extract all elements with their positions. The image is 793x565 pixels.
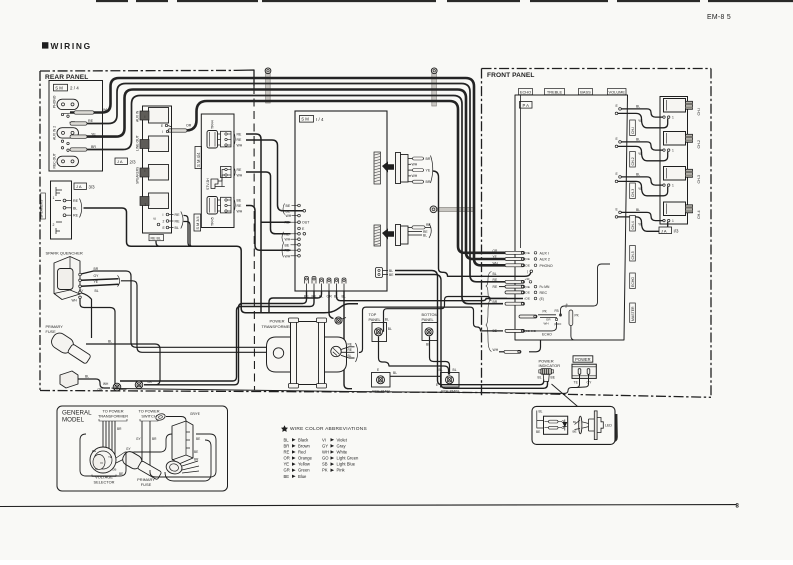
wire TR45 to SM1/4 bbox=[246, 206, 291, 251]
svg-text:WH: WH bbox=[493, 261, 499, 265]
svg-text:WH: WH bbox=[544, 322, 549, 326]
wire transformer to echo lug bbox=[359, 307, 503, 352]
svg-text:TE: TE bbox=[574, 380, 579, 384]
jack REC OUT bbox=[57, 156, 79, 166]
diode bbox=[563, 420, 567, 431]
svg-text:BL: BL bbox=[175, 226, 179, 230]
svg-text:TOP: TOP bbox=[369, 313, 377, 317]
wire RE down-left bbox=[120, 291, 314, 381]
svg-text:BE: BE bbox=[196, 437, 200, 441]
svg-text:PK: PK bbox=[322, 468, 328, 473]
SM1/4 bottom terminals bbox=[305, 277, 309, 284]
svg-text:GO: GO bbox=[322, 456, 329, 461]
svg-text:LINE OUT: LINE OUT bbox=[136, 135, 140, 151]
svg-text:I/3: I/3 bbox=[674, 229, 679, 234]
svg-text:SELECTOR: SELECTOR bbox=[94, 479, 115, 484]
svg-text:PANEL: PANEL bbox=[422, 318, 434, 322]
jack column outline bbox=[143, 106, 172, 233]
svg-text:VI: VI bbox=[100, 461, 103, 465]
wire YE from quencher bbox=[81, 284, 118, 286]
svg-text:SWITCH: SWITCH bbox=[141, 414, 157, 419]
E row bbox=[298, 227, 301, 230]
pointer line to led detail bbox=[552, 384, 578, 406]
svg-text:CH-2: CH-2 bbox=[697, 140, 701, 149]
jack CH-2 bbox=[664, 132, 686, 146]
terminals CH-4 bbox=[663, 219, 665, 221]
svg-text:BR: BR bbox=[94, 267, 99, 271]
wire color abbreviations bbox=[281, 425, 288, 432]
svg-text:(OE: (OE bbox=[525, 285, 530, 289]
side panel right bbox=[441, 373, 460, 388]
svg-text:INDICATOR: INDICATOR bbox=[539, 363, 561, 368]
wire CH-2 E BL bbox=[619, 141, 622, 144]
svg-text:Pink: Pink bbox=[337, 468, 346, 473]
transistor TR45 bbox=[207, 197, 218, 215]
TR45 header bbox=[221, 197, 232, 213]
wire BL2 down-right bbox=[337, 291, 524, 301]
svg-text:BL: BL bbox=[348, 354, 352, 358]
svg-text:BR: BR bbox=[91, 145, 96, 149]
svg-text:RE: RE bbox=[493, 278, 498, 282]
svg-text:E: E bbox=[153, 217, 157, 219]
svg-text:S M 3/4: S M 3/4 bbox=[196, 216, 200, 229]
wire YE aux2 to bundle bbox=[70, 90, 505, 260]
svg-text:YE: YE bbox=[91, 132, 96, 136]
svg-text:BR: BR bbox=[426, 157, 431, 161]
svg-text:CH-4: CH-4 bbox=[631, 221, 635, 229]
svg-text:RE BL: RE BL bbox=[151, 237, 161, 241]
svg-text:FRONT PANEL: FRONT PANEL bbox=[487, 72, 535, 79]
switch wire GY bbox=[577, 375, 589, 388]
transformer terminals bbox=[273, 348, 283, 358]
svg-text:+30: +30 bbox=[525, 277, 530, 281]
bottom page rule bbox=[0, 505, 736, 507]
svg-text:YE: YE bbox=[638, 119, 643, 123]
svg-text:RE: RE bbox=[348, 348, 352, 352]
svg-text:BE: BE bbox=[285, 243, 290, 247]
svg-text:PHONO: PHONO bbox=[540, 264, 553, 268]
svg-text:GY: GY bbox=[587, 380, 593, 384]
svg-text:GR/YE: GR/YE bbox=[190, 412, 200, 416]
svg-text:Light Blue: Light Blue bbox=[337, 462, 356, 467]
earth contact bbox=[157, 223, 160, 226]
svg-text:BR: BR bbox=[152, 437, 157, 441]
svg-text:CH-2: CH-2 bbox=[631, 157, 635, 165]
svg-text:WH: WH bbox=[237, 144, 243, 148]
quencher terminals bbox=[79, 273, 82, 276]
svg-text:Gray: Gray bbox=[337, 443, 347, 448]
svg-text:CH-I: CH-I bbox=[697, 108, 701, 116]
SM1/4 right connector 2 hatched strip bbox=[374, 225, 381, 246]
svg-text:BL: BL bbox=[385, 318, 389, 322]
brace rows group1 bbox=[486, 272, 492, 302]
svg-text:POWER: POWER bbox=[575, 357, 591, 362]
wire TR44 row1 to SM1/4 bbox=[246, 134, 261, 312]
jack PHONO bbox=[57, 99, 79, 109]
svg-text:S M: S M bbox=[301, 117, 309, 122]
svg-text:ECHO: ECHO bbox=[520, 90, 531, 95]
wire connector2 down bbox=[433, 171, 500, 276]
svg-text:RE: RE bbox=[175, 220, 181, 224]
svg-text:CH-4: CH-4 bbox=[697, 210, 701, 219]
wire OR auxin to bundle bbox=[186, 101, 505, 253]
ac plug cap bbox=[165, 459, 184, 475]
svg-text:WH: WH bbox=[412, 163, 418, 167]
svg-text:OR: OR bbox=[98, 388, 104, 392]
svg-text:FUSE: FUSE bbox=[46, 330, 57, 334]
switch wire TE long run bbox=[112, 375, 580, 394]
jack CH-3 bbox=[664, 167, 686, 181]
svg-text:S M: S M bbox=[55, 86, 63, 91]
wire CH-3 E BL bbox=[619, 176, 622, 179]
svg-text:2/3: 2/3 bbox=[130, 159, 137, 164]
svg-text:CH-I: CH-I bbox=[631, 127, 635, 134]
svg-text:RE: RE bbox=[493, 285, 498, 289]
svg-text:WH: WH bbox=[237, 174, 243, 178]
svg-text:2 / 4: 2 / 4 bbox=[70, 86, 79, 91]
led body bbox=[594, 411, 597, 440]
svg-text:2: 2 bbox=[145, 203, 147, 207]
mid header RE WH bbox=[221, 167, 232, 178]
svg-text:RE: RE bbox=[237, 138, 243, 142]
svg-text:RE: RE bbox=[175, 213, 181, 217]
wire BR from quencher bbox=[81, 271, 273, 347]
wire side panel to side panel bbox=[390, 375, 441, 377]
svg-text:ECHO: ECHO bbox=[542, 332, 552, 336]
svg-text:J A: J A bbox=[76, 184, 82, 189]
wire from RE BL box bbox=[156, 241, 160, 247]
svg-text:TRANSFORMER: TRANSFORMER bbox=[98, 414, 128, 419]
svg-text:STV-3H: STV-3H bbox=[206, 178, 210, 190]
svg-text:AUX 2: AUX 2 bbox=[540, 258, 550, 262]
jack AUX IN 2 bbox=[57, 128, 79, 138]
svg-text:BL: BL bbox=[388, 327, 392, 331]
ac plug wires bbox=[182, 461, 199, 473]
svg-text:3/3: 3/3 bbox=[89, 184, 96, 189]
svg-text:WH: WH bbox=[285, 254, 291, 258]
BL BE pcb connector bbox=[376, 268, 383, 278]
svg-text:ECHO: ECHO bbox=[631, 277, 635, 287]
svg-text:SB: SB bbox=[322, 462, 328, 467]
rear panel border bbox=[40, 69, 236, 72]
svg-text:BE: BE bbox=[194, 450, 198, 454]
svg-text:BR: BR bbox=[117, 427, 122, 431]
quencher bracket bbox=[118, 275, 120, 286]
label SM 1/4 bbox=[300, 116, 314, 123]
svg-text:REC OUT: REC OUT bbox=[53, 153, 57, 168]
TR44 wire labels bbox=[234, 132, 236, 147]
wire CH-I YE bbox=[615, 112, 618, 115]
svg-text:BE: BE bbox=[286, 204, 291, 208]
svg-text:OR: OR bbox=[493, 249, 498, 253]
svg-text:RE: RE bbox=[88, 119, 94, 123]
svg-text:BL: BL bbox=[636, 104, 640, 108]
wires from bottom contacts bbox=[184, 216, 192, 247]
wire WH phono to bundle bbox=[70, 78, 505, 265]
svg-text:BL: BL bbox=[636, 208, 640, 212]
svg-text:2: 2 bbox=[163, 219, 165, 223]
svg-text:Blue: Blue bbox=[298, 474, 307, 479]
svg-text:BR: BR bbox=[284, 443, 290, 448]
svg-text:YE: YE bbox=[493, 255, 497, 259]
wire BL3 down bbox=[344, 291, 352, 389]
echo wires bbox=[523, 322, 557, 331]
svg-text:S M 4/4: S M 4/4 bbox=[196, 152, 201, 167]
wire mid RE to SM1/4 bbox=[246, 172, 291, 234]
wire CH-I E BL bbox=[619, 108, 622, 111]
board SM1/4 outline bbox=[295, 111, 387, 291]
svg-text:RE: RE bbox=[348, 342, 352, 346]
wire CH-4 E BL bbox=[619, 211, 622, 214]
transformer core bbox=[291, 322, 325, 385]
led box feed wires bbox=[537, 411, 544, 429]
connector JA3/3 speakers bbox=[51, 181, 72, 239]
power switch label bbox=[573, 356, 593, 362]
cable clamp mid bbox=[437, 207, 474, 211]
svg-text:PHONO: PHONO bbox=[53, 95, 57, 108]
svg-text:AUX I: AUX I bbox=[540, 251, 549, 255]
svg-text:White: White bbox=[337, 449, 348, 454]
svg-text:PANEL: PANEL bbox=[369, 318, 381, 322]
wire GR to ground bbox=[329, 291, 334, 319]
svg-text:WH: WH bbox=[286, 214, 292, 218]
wire top panel down to side panel bbox=[379, 336, 449, 374]
svg-text:1: 1 bbox=[672, 219, 674, 223]
svg-text:MASTER: MASTER bbox=[631, 306, 635, 321]
svg-text:BL: BL bbox=[538, 376, 542, 380]
svg-text:I: I bbox=[163, 213, 164, 217]
svg-text:MODEL: MODEL bbox=[62, 417, 85, 424]
svg-text:WH: WH bbox=[322, 449, 329, 454]
ground lug GR2 bbox=[135, 381, 143, 389]
wire bottom panel to side panel bbox=[430, 336, 450, 374]
svg-text:1: 1 bbox=[672, 184, 674, 188]
wire BL from quencher down bbox=[81, 293, 92, 338]
wire WH from quencher down bbox=[80, 299, 127, 389]
svg-text:RE: RE bbox=[237, 168, 243, 172]
svg-text:POWER: POWER bbox=[269, 319, 284, 324]
svg-text:RE: RE bbox=[92, 449, 96, 453]
svg-text:REC: REC bbox=[540, 291, 548, 295]
recout contacts bbox=[61, 147, 63, 149]
svg-text:LED: LED bbox=[605, 424, 612, 428]
svg-text:CH-3: CH-3 bbox=[697, 175, 701, 184]
ac connector pins bbox=[186, 432, 190, 448]
svg-text:(OE: (OE bbox=[525, 291, 530, 295]
svg-text:BL: BL bbox=[636, 137, 640, 141]
led detail box bbox=[535, 414, 617, 443]
svg-text:VI: VI bbox=[322, 437, 326, 442]
svg-text:(OE: (OE bbox=[525, 297, 530, 301]
svg-text:YE: YE bbox=[638, 152, 643, 156]
title WIRING bbox=[42, 42, 48, 48]
svg-text:TR44: TR44 bbox=[211, 120, 215, 129]
svg-text:AUX IN 2: AUX IN 2 bbox=[53, 126, 57, 140]
svg-text:RE: RE bbox=[284, 449, 290, 454]
primary fuse general bbox=[121, 449, 164, 482]
jack CH-I bbox=[664, 99, 686, 113]
board SM2/4 outline bbox=[49, 81, 103, 172]
terminals CH-I bbox=[663, 116, 665, 118]
fuse bottom connector bbox=[60, 371, 78, 388]
svg-text:Black: Black bbox=[298, 437, 309, 442]
svg-text:FB: FB bbox=[555, 309, 559, 313]
svg-text:WH: WH bbox=[103, 382, 109, 386]
fuse bottom wires bbox=[78, 379, 110, 388]
transformer right wires bbox=[341, 347, 355, 350]
svg-text:E: E bbox=[161, 124, 163, 128]
wire TR44 row2 to SM1/4 bbox=[246, 140, 303, 211]
svg-text:FUSE: FUSE bbox=[141, 482, 152, 487]
svg-text:P A: P A bbox=[522, 103, 529, 108]
svg-text:BL: BL bbox=[539, 410, 543, 414]
wire BR recout to bundle bbox=[70, 96, 503, 304]
svg-text:Light Green: Light Green bbox=[337, 456, 360, 461]
svg-text:BE: BE bbox=[536, 430, 540, 434]
svg-text:BL: BL bbox=[95, 289, 99, 293]
wire GY from quencher bbox=[81, 279, 118, 281]
svg-text:EM-8 5: EM-8 5 bbox=[707, 14, 731, 21]
wire from quencher bracket to transformer bbox=[121, 281, 273, 353]
connector 1 arrow bbox=[382, 162, 394, 173]
label SM 2/4 bbox=[54, 84, 68, 91]
side panel left bbox=[372, 373, 391, 388]
svg-text:YE: YE bbox=[638, 187, 643, 191]
svg-text:PRIMARY: PRIMARY bbox=[46, 325, 64, 329]
selector wire labels bbox=[116, 452, 134, 458]
led lens disk bbox=[579, 416, 582, 434]
TR44 header bbox=[221, 131, 232, 147]
svg-text:BL: BL bbox=[73, 206, 77, 210]
svg-text:BL: BL bbox=[453, 368, 457, 372]
svg-text:REAR PANEL: REAR PANEL bbox=[45, 74, 88, 81]
svg-text:TRANSFORMER: TRANSFORMER bbox=[262, 324, 293, 329]
terminals CH-3 bbox=[663, 184, 665, 186]
label JA 3/3 bbox=[74, 183, 87, 189]
fuse wire BL bbox=[86, 344, 160, 385]
svg-text:WH: WH bbox=[493, 348, 499, 352]
svg-text:I: I bbox=[145, 169, 146, 173]
svg-text:CH-3: CH-3 bbox=[631, 189, 635, 197]
svg-text:RE: RE bbox=[237, 133, 243, 137]
wire BE down-left bbox=[144, 291, 307, 385]
svg-text:J A: J A bbox=[661, 228, 667, 233]
connector 2 wires bbox=[408, 227, 414, 229]
wire CH-3 YE bbox=[615, 180, 618, 183]
jack AUX IN bbox=[149, 108, 169, 124]
speaker wire run to bottom bbox=[84, 208, 359, 313]
svg-text:GENERAL: GENERAL bbox=[62, 410, 92, 417]
svg-text:BL: BL bbox=[439, 368, 443, 372]
front panel border bbox=[482, 68, 712, 70]
svg-text:GR: GR bbox=[284, 468, 290, 473]
svg-text:GY: GY bbox=[322, 443, 328, 448]
svg-text:WH: WH bbox=[72, 298, 78, 302]
connector 1 wires bbox=[408, 158, 424, 160]
wire echo trimmer down bbox=[571, 326, 581, 341]
svg-text:WH: WH bbox=[285, 238, 291, 242]
wire CH-4 YE bbox=[615, 216, 618, 219]
jack SPEAKER1 bbox=[149, 165, 169, 181]
svg-text:2: 2 bbox=[53, 223, 55, 227]
gr ye wire bbox=[166, 417, 186, 422]
svg-text:LB: LB bbox=[148, 380, 153, 384]
svg-text:BR: BR bbox=[194, 458, 199, 462]
svg-text:GY: GY bbox=[94, 274, 100, 278]
svg-text:GY: GY bbox=[79, 288, 83, 292]
jack SPEAKER2 bbox=[149, 193, 169, 209]
svg-text:I: I bbox=[145, 115, 146, 119]
terminals CH-2 bbox=[663, 149, 665, 151]
connector 2 arrow bbox=[382, 229, 394, 240]
label JA 1/3 bbox=[659, 227, 672, 234]
jack CH-4 bbox=[664, 202, 686, 216]
svg-text:Violet: Violet bbox=[337, 437, 348, 442]
svg-text:BR: BR bbox=[493, 300, 498, 304]
switch harness lines bbox=[141, 421, 143, 466]
svg-text:VOLUME: VOLUME bbox=[609, 90, 626, 95]
svg-text:Red: Red bbox=[298, 449, 306, 454]
indicator body bbox=[541, 369, 552, 375]
svg-text:(OE: (OE bbox=[525, 257, 530, 261]
svg-text:OR: OR bbox=[284, 456, 290, 461]
label PA bbox=[520, 102, 533, 109]
svg-text:SPEAKERS: SPEAKERS bbox=[40, 199, 44, 218]
speaker wires bracket bbox=[80, 199, 82, 218]
svg-text:(OE: (OE bbox=[525, 264, 530, 268]
svg-text:BL: BL bbox=[493, 272, 497, 276]
svg-text:I: I bbox=[162, 130, 163, 134]
svg-text:WH: WH bbox=[237, 210, 243, 214]
wire RE aux2 to bundle bbox=[70, 84, 505, 282]
wires BL BE to power indicator bbox=[395, 271, 544, 385]
connector 2 housing bbox=[396, 225, 401, 246]
ground lug GR bbox=[335, 317, 342, 324]
jack column bottom contacts bbox=[166, 213, 169, 216]
svg-text:YE: YE bbox=[426, 169, 431, 173]
svg-text:AUX IN: AUX IN bbox=[136, 110, 140, 122]
svg-text:(E): (E) bbox=[540, 297, 544, 301]
svg-text:BL: BL bbox=[573, 420, 577, 424]
connector 1 housing bbox=[396, 153, 401, 184]
aux2 contacts bbox=[61, 140, 63, 142]
svg-text:YE: YE bbox=[108, 455, 112, 459]
row4 circle bbox=[530, 270, 533, 273]
chassis bottom border bbox=[40, 391, 711, 398]
svg-text:(OE: (OE bbox=[525, 251, 530, 255]
front panel pcb outline bbox=[515, 95, 628, 340]
lug row REC bbox=[505, 291, 525, 294]
svg-text:RE: RE bbox=[73, 214, 79, 218]
svg-text:Fu MN: Fu MN bbox=[540, 285, 551, 289]
svg-text:YE: YE bbox=[638, 223, 643, 227]
wire top panel up to REC lug bbox=[384, 297, 508, 332]
wire CH-2 YE bbox=[615, 145, 618, 148]
svg-text:CH-5: CH-5 bbox=[631, 251, 635, 259]
svg-text:I / 4: I / 4 bbox=[316, 117, 324, 122]
speaker pins bbox=[63, 199, 66, 202]
led resistor board bbox=[544, 416, 568, 434]
resistor r2 bbox=[545, 427, 549, 429]
brace rows group2 bbox=[486, 299, 492, 352]
svg-text:BE: BE bbox=[493, 329, 498, 333]
svg-text:BL: BL bbox=[108, 340, 112, 344]
label RE BL box bbox=[149, 235, 164, 241]
svg-text:RE: RE bbox=[237, 204, 243, 208]
jack LINE OUT bbox=[149, 136, 169, 152]
ac connector block bbox=[172, 421, 193, 464]
phono contacts bbox=[61, 113, 63, 115]
